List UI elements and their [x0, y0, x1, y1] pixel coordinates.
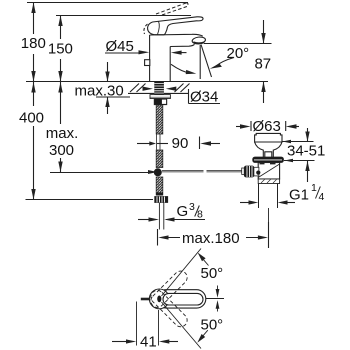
drain knurled knob: [244, 166, 254, 177]
drain funnel neck: [255, 142, 282, 157]
deck leader arrow left: [143, 87, 154, 91]
svg-text:max.180: max.180: [182, 230, 240, 247]
threaded shank: [154, 82, 164, 95]
deck bottom line: [128, 92, 188, 94]
drain rod end fitting: [242, 168, 245, 174]
svg-text:20°: 20°: [227, 45, 250, 62]
svg-text:G: G: [177, 203, 189, 220]
angle vertical line: [199, 45, 201, 79]
drain tailpipe: [259, 184, 278, 209]
deck leader arrow right: [166, 87, 177, 91]
deck hatching right: [175, 84, 190, 93]
washer: [150, 95, 170, 99]
drain locknut: [253, 157, 284, 163]
drain neck collar: [265, 152, 272, 157]
dimension 34-51: [282, 141, 314, 143]
dashed cap arc: [144, 24, 148, 34]
svg-text:8: 8: [197, 209, 203, 221]
swivel line upper 50: [162, 249, 202, 297]
dimension 90: [137, 143, 150, 145]
G1 1/4 arrows: [240, 202, 249, 204]
dimension 87: [204, 43, 272, 45]
supply pipe: [159, 203, 163, 230]
dimension 400: [31, 82, 35, 200]
extension line G3/8 level: [26, 199, 154, 201]
hose inner tube at gap: [157, 134, 160, 150]
faucet body: [150, 34, 203, 81]
angle arc arrow: [171, 64, 191, 73]
dimension 41: [136, 302, 138, 346]
20 deg leader: [216, 58, 234, 67]
plan view pin: [157, 296, 161, 303]
drain rod connector: [254, 167, 259, 176]
deck hatching left: [130, 84, 146, 93]
extension line lever tip: [56, 15, 191, 17]
svg-text:300: 300: [49, 142, 74, 159]
flexible hose middle: [156, 150, 163, 168]
extension line lever max height: [27, 2, 188, 4]
dimension max180: [157, 229, 159, 246]
swivel line lower 50: [162, 302, 202, 349]
flexible hose upper: [156, 105, 163, 134]
svg-text:Ø63: Ø63: [253, 118, 281, 135]
aerator spout outlet: [192, 36, 206, 44]
extension line hose end level: [50, 172, 153, 174]
svg-text:180: 180: [21, 35, 46, 52]
ghost lever upper dashed: [148, 268, 190, 310]
plan view spout tick: [141, 298, 149, 301]
plan view outer body: [157, 290, 206, 308]
tailpipe centerline: [268, 208, 270, 246]
lever handle: [148, 17, 203, 35]
svg-text:150: 150: [48, 41, 73, 58]
svg-text:3: 3: [189, 201, 195, 213]
mounting nut: [154, 99, 167, 105]
dimension 180: [31, 3, 35, 82]
drain flange top block: [255, 133, 282, 142]
svg-text:G1: G1: [289, 187, 309, 204]
plan view centerline: [206, 298, 224, 300]
dimension 150: [58, 16, 62, 82]
svg-text:4: 4: [319, 191, 325, 203]
dimension D63: [236, 126, 240, 128]
plan view lever: [163, 293, 203, 305]
svg-text:Ø34: Ø34: [190, 88, 218, 105]
svg-text:1: 1: [311, 182, 317, 194]
junction elbow: [154, 168, 162, 176]
drain body: [258, 163, 279, 180]
countertop deck top line: [26, 81, 268, 83]
G3/8 fitting nut: [155, 197, 168, 203]
svg-text:50°: 50°: [201, 317, 224, 334]
svg-text:400: 400: [19, 110, 44, 127]
svg-text:50°: 50°: [201, 265, 224, 282]
svg-text:41: 41: [140, 334, 157, 350]
label D34: [188, 89, 190, 104]
ghost lever lower dashed: [148, 288, 190, 330]
svg-text:34-51: 34-51: [287, 143, 325, 160]
dashed lever raised position: [156, 3, 188, 15]
angle arrows at centerline: [217, 286, 219, 291]
drain pipe coupler: [258, 179, 279, 184]
angle slanted line: [201, 45, 212, 78]
svg-text:max.: max.: [46, 125, 79, 142]
flexible hose lower: [156, 177, 163, 195]
dimension max300: [58, 82, 62, 172]
pull-rod knob: [145, 60, 150, 66]
svg-text:87: 87: [254, 56, 271, 73]
svg-text:90: 90: [172, 135, 189, 152]
pop-up rod: [162, 170, 243, 172]
